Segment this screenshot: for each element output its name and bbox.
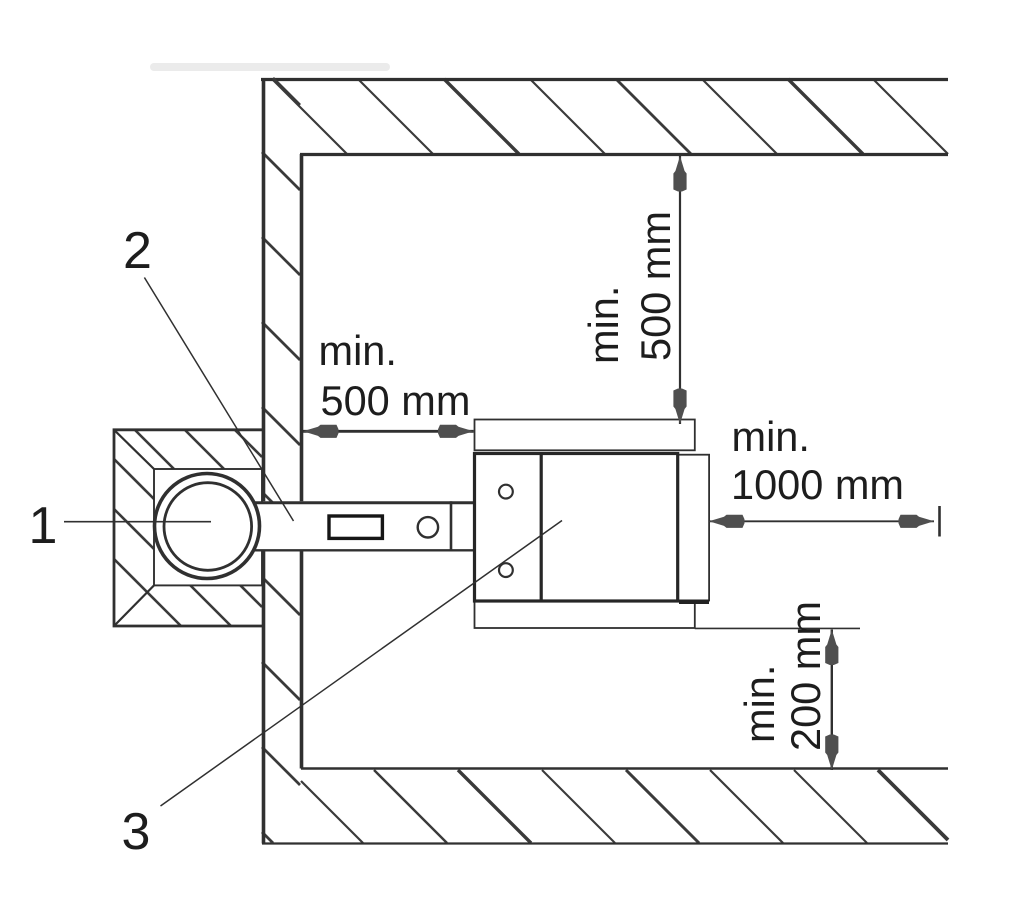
pipe flange [450, 501, 453, 551]
left wall hatching [273, 78, 300, 105]
chimney block C1 [114, 430, 262, 626]
ceiling wall outline bottom [300, 153, 948, 156]
left wall outer edge [262, 78, 266, 501]
pipe pin circle [418, 517, 438, 537]
svg-text:min.: min. [580, 286, 627, 364]
dim line min 200 [831, 630, 833, 771]
dim line min 1000 [709, 520, 934, 522]
ceiling wall outline top [261, 78, 948, 81]
extension line for 200 dim [695, 627, 860, 629]
ceiling hatching [272, 79, 347, 154]
svg-text:1000 mm: 1000 mm [731, 461, 904, 508]
svg-text:min.: min. [736, 665, 783, 743]
svg-text:min.: min. [319, 327, 397, 374]
svg-text:200 mm: 200 mm [782, 601, 829, 751]
svg-text:2: 2 [123, 222, 152, 280]
floor outline bottom [262, 842, 948, 844]
heater body [475, 454, 678, 602]
heater right panel bottom bar [679, 600, 709, 605]
connector pipe 2 (white body) [256, 502, 475, 551]
leader line 2 [144, 278, 293, 522]
chimney inner square [154, 469, 262, 585]
svg-text:500 mm: 500 mm [321, 377, 471, 424]
heater screw circle bottom [499, 563, 513, 577]
chimney block corner diagonal bottom [114, 585, 154, 626]
floor hatching [301, 781, 363, 843]
dim line min 500 vertical [679, 156, 681, 424]
chimney block corner diagonal top [114, 430, 154, 469]
heater plinth [475, 601, 695, 629]
svg-text:1: 1 [29, 497, 58, 555]
heater screw circle top [499, 485, 513, 499]
dim 1000 terminator [938, 506, 941, 537]
heater divider [540, 454, 543, 602]
scan smudge top left [150, 63, 390, 71]
flue outer circle [155, 474, 260, 579]
svg-text:3: 3 [122, 803, 151, 861]
heater right panel [678, 455, 709, 601]
leader line 3 [161, 521, 563, 807]
leader line 1 [64, 521, 211, 523]
chimney block outline [114, 430, 262, 626]
floor outline top [301, 767, 948, 769]
pipe bottom line [254, 549, 475, 551]
left wall inner edge [300, 154, 304, 501]
heater 3 : top plate [475, 420, 695, 451]
dim line min 500 horizontal [303, 430, 474, 433]
svg-text:min.: min. [732, 413, 810, 460]
svg-text:500 mm: 500 mm [632, 211, 679, 361]
flue inner circle [164, 483, 252, 571]
damper handle rect [329, 516, 382, 538]
pipe top line [254, 501, 475, 504]
